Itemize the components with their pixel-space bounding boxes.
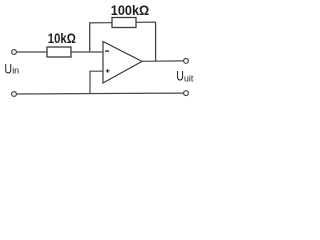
svg-text:U: U xyxy=(4,61,12,77)
wire R1 to op-amp inverting input xyxy=(71,51,103,53)
resistor R2 100kΩ xyxy=(112,18,136,28)
terminal output bottom circle xyxy=(184,91,189,96)
wire input terminal to R1 xyxy=(17,51,48,53)
wire feedback tap up from inverting input node xyxy=(89,23,91,52)
svg-text:10kΩ: 10kΩ xyxy=(48,31,76,46)
op-amp inverting pin minus sign xyxy=(105,50,109,52)
svg-text:in: in xyxy=(12,66,19,76)
terminal input top circle xyxy=(12,50,17,55)
svg-text:100kΩ: 100kΩ xyxy=(111,3,150,18)
svg-text:uit: uit xyxy=(184,73,194,83)
terminal input bottom circle xyxy=(12,92,17,97)
op-amp U1 xyxy=(103,42,142,84)
wire op-amp output to output terminal xyxy=(142,60,184,62)
op-amp non-inverting pin plus sign xyxy=(106,69,110,73)
wire feedback down to output node xyxy=(155,22,157,61)
resistor R1 10kΩ xyxy=(47,47,71,57)
wire non-inverting input from bottom rail xyxy=(90,71,103,93)
net label Uuit xyxy=(176,68,194,84)
net label Uin xyxy=(4,61,19,77)
svg-text:U: U xyxy=(176,68,184,84)
wire bottom rail xyxy=(17,92,184,95)
wire top feedback rail xyxy=(89,21,156,24)
terminal output top circle xyxy=(184,59,189,64)
